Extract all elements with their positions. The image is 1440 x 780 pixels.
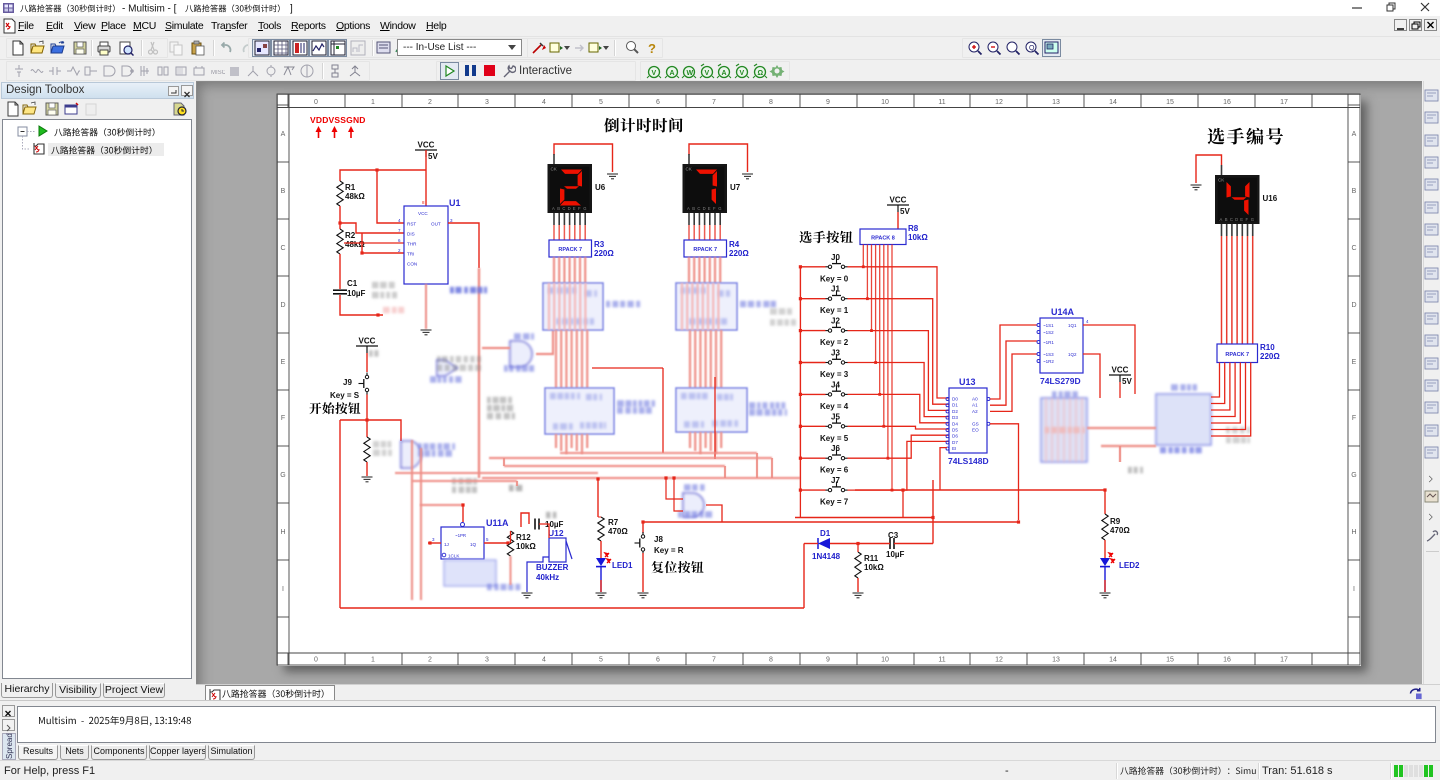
wire U7 CK to ground [689,144,748,172]
svg-text:R3: R3 [594,240,605,249]
label VCC2 5 smudge [369,350,379,357]
svg-text:J5: J5 [831,412,840,421]
wire rail 466 [504,465,725,467]
wire J0 left [800,266,825,268]
svg-text:D2: D2 [952,409,958,414]
wire J7 rail [795,517,933,519]
wire EI down [940,448,947,490]
svg-text:J4: J4 [831,380,840,389]
svg-text:3: 3 [450,218,453,223]
resistor R5 [364,437,370,462]
svg-text:U7: U7 [730,183,741,192]
wire U15-U17 link [1087,427,1156,429]
wire gate U5A in [666,478,683,499]
switch J6 [826,450,848,460]
gate U4A [510,341,532,367]
svg-text:RPACK 7: RPACK 7 [1225,352,1249,358]
wire bundle U11 down [689,432,691,448]
svg-text:2: 2 [398,248,401,253]
svg-text:R4: R4 [729,240,740,249]
svg-text:G: G [1251,217,1254,222]
wire VCC1 to U1 pin8 [425,150,427,206]
label black smudge C [437,356,481,371]
wire R8 pin4 pullup [879,245,881,395]
svg-text:J6: J6 [831,444,840,453]
svg-text:LED1: LED1 [612,561,633,570]
wire rail 453 [560,452,757,454]
junction rail490 [1103,488,1106,491]
switch J3 [826,354,848,364]
ground smudge mid [509,485,522,492]
7seg display U16 [1215,165,1278,236]
svg-text:Key = 1: Key = 1 [820,306,849,315]
wire pale doubles left [411,440,413,600]
text 复位按钮 [652,561,704,573]
svg-text:1Q: 1Q [470,542,477,547]
wire VCC2 to J9 [366,353,368,372]
wire U14 1Q2 out [1083,354,1100,398]
ic U8 74LS48 blurred [543,283,603,330]
wire R5 to ground [366,462,368,476]
svg-text:J9: J9 [343,378,352,387]
wire THR link [344,242,404,244]
svg-text:4: 4 [398,218,401,223]
wire U14 1Q1 out [1083,325,1135,394]
wire buzzer gnd [527,557,549,592]
svg-text:E: E [708,206,711,211]
text 选手按钮 [800,231,853,243]
label U4A smudges [514,333,534,340]
ground U7 [742,174,753,179]
diode D1 [804,538,858,549]
wire bottom rail [340,607,804,609]
junction J0 [799,265,802,268]
wire LED2 gnd [1104,567,1106,592]
wire TRI link [362,233,404,253]
power VCC1 5V [415,141,438,162]
wire drop 757 [756,453,758,478]
ground U16 [1191,185,1202,190]
svg-text:R1: R1 [345,183,356,192]
svg-text:U16: U16 [1263,194,1278,203]
wire U11A top feed [462,505,464,522]
svg-text:D3: D3 [952,415,958,420]
wire drop 772 [771,458,773,478]
svg-text:470Ω: 470Ω [608,527,628,536]
label smudge near U1 bottom [372,282,397,299]
svg-text:10kΩ: 10kΩ [908,233,928,242]
svg-text:220Ω: 220Ω [1260,352,1280,361]
resistor R11 [855,552,861,578]
svg-text:74LS279D: 74LS279D [1040,376,1081,386]
svg-text:RPACK 8: RPACK 8 [871,235,895,241]
svg-text:D7: D7 [952,440,958,445]
svg-text:470Ω: 470Ω [1110,526,1130,535]
svg-text:D: D [703,206,706,211]
wire J7 to encoder [848,441,950,490]
label grey smudge right2 [1226,427,1250,444]
svg-text:A1: A1 [972,403,978,408]
svg-text:R12: R12 [516,533,531,542]
wire rail 473 [395,472,598,474]
power VCC3 [887,196,910,217]
wire J6 to encoder [848,435,950,458]
gate U5A [683,493,704,517]
svg-text:THR: THR [407,242,417,247]
svg-text:C1: C1 [347,279,358,288]
wire bundle U6 to R3 [553,225,555,240]
ground R11 [853,593,864,598]
svg-text:F: F [578,206,581,211]
wire bundle U10 to U11 [689,330,691,388]
svg-text:1Q2: 1Q2 [1068,352,1077,357]
gate U2A [401,441,421,468]
svg-text:Key = 4: Key = 4 [820,402,849,411]
resistor pack R8 [860,229,906,245]
label black smudge A [452,478,477,493]
svg-text:C: C [697,206,700,211]
switch J5 [826,418,848,428]
wire J8 gnd [642,553,644,592]
svg-text:~1R2: ~1R2 [1043,359,1054,364]
ic U15 blurred [1041,398,1087,462]
wire drop 517 [516,481,518,486]
junction J8 rail [641,520,644,523]
junction C1 bottom [376,313,379,316]
junction pullup J3 [874,361,877,364]
wire carry U9-U11 [592,367,663,369]
wire J1 to encoder [848,299,950,405]
junction TRI node [360,251,363,254]
svg-text:B: B [692,206,695,211]
svg-text:10µF: 10µF [347,289,366,298]
wire U13 A0 to U14 [990,325,1037,399]
svg-text:Key = 5: Key = 5 [820,434,849,443]
svg-text:G: G [583,206,586,211]
svg-text:J8: J8 [654,535,663,544]
svg-text:RPACK 7: RPACK 7 [558,247,582,253]
wire J4 to encoder [848,394,950,422]
svg-text:4: 4 [1086,319,1089,324]
svg-text:Spread: Spread [5,733,14,759]
wire R11 gnd [857,578,859,592]
wire left rail to bottom [340,419,367,421]
wire J6 left [800,457,825,459]
text 倒计时时间 [604,118,682,133]
resistor R1 [337,181,343,206]
wire J7 left [800,489,825,491]
ic U17 blurred [1156,394,1211,445]
svg-text:E: E [573,206,576,211]
junction VCC rail [375,168,378,171]
wire bundle U7 to R4 [688,225,690,240]
wire J7bus to rail517 [794,517,796,519]
junction pullup J6 [887,457,890,460]
wire U1 OUT [448,223,479,268]
wire J0 to encoder [848,267,950,398]
svg-text:EO: EO [972,428,979,433]
switch J1 [826,290,848,300]
power VCC2 [356,337,378,354]
text 选手编号 [1208,128,1283,145]
svg-text:A: A [687,206,690,211]
wire bundle U8 to U9 [555,330,557,388]
wire switch bus left [799,267,801,490]
svg-text:VCC: VCC [359,337,376,346]
ic U14A 74LS279D [1037,318,1083,373]
wire R12 bottom [509,556,511,585]
wire U13 A1 to U14 [990,341,1037,405]
switch J9 [359,373,369,395]
svg-text:C: C [562,206,565,211]
wire bundle R10 to U17 [1211,363,1220,398]
gate U3A [437,360,457,376]
svg-text:5: 5 [486,537,489,542]
junction J9 node [365,418,368,421]
diode LED1 [596,553,611,567]
label U5A smudges [684,484,705,491]
svg-text:A0: A0 [972,397,978,402]
junction J5 [799,425,802,428]
svg-text:A: A [552,206,555,211]
wire rail 481 [412,480,517,482]
capacitor C3 [890,538,894,549]
resistor R7 [598,517,604,541]
junction J1 [799,297,802,300]
junction 463-505 [461,503,464,506]
svg-text:Key = 7: Key = 7 [820,498,849,507]
wire U6 CK to ground [554,144,613,172]
svg-text:10µF: 10µF [886,550,905,559]
svg-text:220Ω: 220Ω [594,249,614,258]
wire J8 rail [642,522,644,533]
svg-text:VCC: VCC [890,196,907,205]
svg-text:~1S1: ~1S1 [1043,323,1054,328]
wire J9 node to gate [367,420,401,441]
svg-text:D0: D0 [952,397,958,402]
svg-text:48kΩ: 48kΩ [345,192,365,201]
svg-text:Key = 0: Key = 0 [820,274,849,283]
power arrow VSS [332,126,338,138]
resistor pack R4 [684,240,727,257]
wire carry 2 [714,377,716,459]
switch J4 [826,386,848,396]
svg-text:10kΩ: 10kΩ [864,563,884,572]
junction J2 [799,329,802,332]
svg-text:40kHz: 40kHz [536,573,559,582]
svg-text:RST: RST [407,222,416,227]
svg-text:D5: D5 [952,428,958,433]
svg-text:TRI: TRI [407,252,414,257]
resistor R9 [1102,514,1108,540]
svg-text:CK: CK [551,167,557,172]
ground LED1 [596,593,607,598]
wire VCC4 drop [1119,382,1121,398]
svg-text:D: D [568,206,571,211]
svg-text:J2: J2 [831,317,840,326]
svg-text:D: D [1235,217,1238,222]
switch J0 [826,258,848,268]
diode LED2 [1100,553,1115,567]
svg-text:3: 3 [432,537,435,542]
svg-text:EI: EI [952,446,956,451]
junction J4 [799,393,802,396]
svg-text:B: B [557,206,560,211]
wire left rail down [339,420,341,608]
wire R1 to R2 [339,206,341,229]
wire rail 478 [482,477,800,479]
ic below U11A blurred [444,560,496,586]
wire drop 504 [503,458,505,466]
label smudge right of U1 [450,287,487,294]
svg-text:Key = S: Key = S [330,391,360,400]
svg-text:A: A [1220,217,1223,222]
junction pullup J1 [866,297,869,300]
label U2A smudge [418,443,455,457]
junction pullup J4 [878,393,881,396]
svg-text:~1R1: ~1R1 [1043,340,1054,345]
switch J2 [826,322,848,332]
capacitor C1 [333,290,347,294]
svg-text:C3: C3 [888,531,899,540]
power arrow VDD [316,126,322,138]
wire R8 pin1 pullup [866,245,868,299]
wire R8 pin2 pullup [871,245,873,331]
svg-text:~1S3: ~1S3 [1043,352,1054,357]
ground buzzer [522,593,533,598]
junction pullup J7 [891,489,894,492]
wire LED1 gnd [600,567,602,592]
wire J2 left [800,330,825,332]
label U8 smudge [606,301,640,308]
switch J8 [635,532,645,554]
wire U1 gnd [425,284,427,329]
wire R8 pin7 pullup [891,245,893,491]
svg-text:Key = 2: Key = 2 [820,338,849,347]
wire J7 to rail [902,490,904,517]
svg-text:R9: R9 [1110,517,1121,526]
wire cap to buzzer [539,524,549,538]
svg-text:74LS148D: 74LS148D [948,456,989,466]
svg-text:Key = R: Key = R [654,546,684,555]
junction pullup J0 [862,265,865,268]
wire J9 to R5 [366,395,368,438]
svg-text:CON: CON [407,262,417,267]
wire carry drop [662,368,664,453]
wire U13 A2 to U14 [990,354,1037,411]
text 开始按钮 [309,402,360,414]
wire R8 pin6 pullup [887,245,889,459]
svg-text:1J: 1J [444,542,449,547]
junction J3 [799,361,802,364]
switch J7 [826,482,848,492]
ic U13 74LS148D [946,388,990,453]
ground J8 [638,593,649,598]
svg-text:VDDVSSGND: VDDVSSGND [310,115,366,125]
wire gate4 out [536,330,553,354]
wire bundle R4 to U10 [688,257,690,283]
svg-text:8: 8 [422,200,425,205]
svg-text:VCC: VCC [418,141,435,150]
ic U11 74LS160 blurred [676,388,747,432]
svg-text:U11A: U11A [486,518,509,528]
wire U13 GS down [990,424,1019,520]
power arrow GND [348,126,354,138]
wire R2 to C1 [339,254,341,289]
ground LED2 [1100,593,1111,598]
svg-text:B: B [1225,217,1228,222]
wire J1 left [800,298,825,300]
label U10 smudge [740,301,776,308]
svg-text:R7: R7 [608,518,619,527]
wire R9 drop [1104,490,1106,514]
capacitor C4 [535,519,539,530]
resistor pack R10 [1217,344,1258,363]
svg-text:~1S2: ~1S2 [1043,330,1054,335]
7seg display U7 [683,154,741,225]
svg-text:1N4148: 1N4148 [812,552,841,561]
wire J5 to encoder [848,426,950,429]
wire bundle R3 to U8 [553,257,555,283]
wire 1Q to R12 [484,542,508,544]
svg-text:Key = 6: Key = 6 [820,466,849,475]
wire gate U5A out [706,505,722,522]
wire R8 pin5 pullup [883,245,885,427]
label U11 smudge [749,402,787,416]
svg-text:~1PR: ~1PR [455,533,466,538]
op-amp U1 555 timer body [404,206,448,284]
wire RST riser [377,170,404,223]
wire pale h505 [420,504,463,506]
label C4 smudge [546,512,556,519]
wire R8 pin3 pullup [875,245,877,363]
svg-text:F: F [1246,217,1249,222]
label R5 smudge [373,441,392,456]
svg-text:J0: J0 [831,253,840,262]
svg-text:6: 6 [398,238,401,243]
svg-text:VCC: VCC [1112,366,1129,375]
wire C3 up [932,480,934,544]
svg-text:5V: 5V [900,207,910,216]
svg-text:CK: CK [686,167,692,172]
svg-text:OUT: OUT [431,222,441,227]
wire J3 left [800,362,825,364]
svg-text:E: E [1240,217,1243,222]
svg-text:BUZZER: BUZZER [536,563,569,572]
svg-text:J1: J1 [831,285,840,294]
junction J6 [799,457,802,460]
junction R1-R2 node [338,221,341,224]
ground J9 [362,477,373,482]
svg-text:1Q1: 1Q1 [1068,323,1077,328]
label U3A smudge [430,376,462,383]
svg-text:U13: U13 [959,377,976,387]
resistor R2 [337,229,343,254]
label U9 smudge [617,400,655,414]
svg-text:R11: R11 [864,554,879,563]
buzzer U12 [549,538,572,562]
svg-text:RPACK 7: RPACK 7 [693,247,717,253]
svg-text:Key = 3: Key = 3 [820,370,849,379]
junction pullup J5 [882,425,885,428]
ic U9 74LS160 blurred [545,388,614,434]
wire R9 LED2 [1104,540,1106,558]
wire VCC3 to R8 [897,212,899,229]
svg-text:R8: R8 [908,224,919,233]
svg-text:5V: 5V [1122,377,1132,386]
svg-text:U6: U6 [595,183,606,192]
wire gate4 feeds [482,347,510,349]
